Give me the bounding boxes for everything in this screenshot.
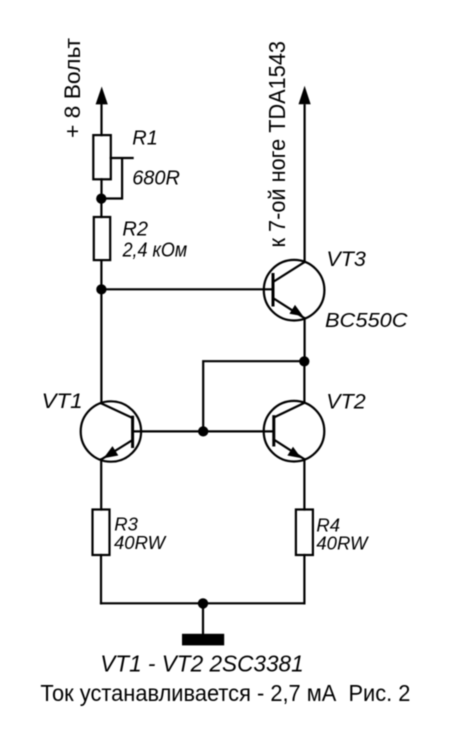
R1 wiper tap xyxy=(102,158,133,199)
resistor R2 xyxy=(94,217,110,260)
svg-text:VT2: VT2 xyxy=(326,390,365,414)
svg-text:BC550C: BC550C xyxy=(325,309,408,332)
svg-text:2,4 кОм: 2,4 кОм xyxy=(122,239,188,261)
svg-text:R2: R2 xyxy=(122,218,148,240)
transistor VT1 xyxy=(81,401,141,509)
node bottom rail / ground xyxy=(198,598,208,608)
svg-text:Ток устанавливается - 2,7 мА: Ток устанавливается - 2,7 мА Рис. 2 xyxy=(40,680,410,706)
transistor VT2 xyxy=(264,366,325,510)
ground stub wire xyxy=(202,603,204,634)
svg-text:VT1: VT1 xyxy=(42,389,83,413)
node junction R2 / VT3 base / VT1 collector xyxy=(96,284,106,294)
wire R2 to node xyxy=(100,260,102,289)
svg-text:VT3: VT3 xyxy=(326,247,365,271)
wire node to bases corner xyxy=(203,361,304,431)
wire base rail VT1 to VT2 xyxy=(133,430,274,432)
node VT3 emitter / VT2 collector xyxy=(299,356,309,366)
bottom rail wire xyxy=(101,602,304,604)
node base rail xyxy=(198,426,208,436)
wire node to VT3 base xyxy=(101,288,273,290)
svg-text:к 7-ой ноге TDA1543: к 7-ой ноге TDA1543 xyxy=(264,41,290,248)
resistor R1 (trimmer 680R) xyxy=(93,135,111,179)
resistor R4 xyxy=(296,510,313,556)
svg-text:+ 8 Вольт: + 8 Вольт xyxy=(60,38,85,138)
svg-text:R1: R1 xyxy=(132,128,158,150)
svg-text:40RW: 40RW xyxy=(114,532,167,553)
resistor R3 xyxy=(93,510,110,556)
wire R1 node to R2 xyxy=(100,199,102,218)
output arrow to TDA1543 xyxy=(299,86,311,262)
wire node down to VT1 collector xyxy=(100,289,102,403)
ground xyxy=(182,634,224,646)
+8V supply arrow xyxy=(96,87,108,136)
wire R3 to bottom rail xyxy=(100,555,102,603)
svg-text:VT1 - VT2 2SC3381: VT1 - VT2 2SC3381 xyxy=(100,651,304,677)
transistor VT3 xyxy=(264,260,325,356)
wire R4 to bottom rail xyxy=(303,555,305,603)
node junction below R1 xyxy=(96,193,106,203)
svg-text:40RW: 40RW xyxy=(316,533,369,554)
svg-text:680R: 680R xyxy=(132,168,180,190)
